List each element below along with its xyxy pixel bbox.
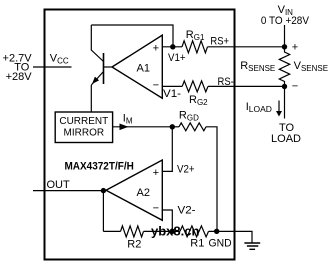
svg-text:RGD: RGD — [179, 110, 199, 123]
ground symbol — [244, 243, 260, 249]
resistor RG2 — [182, 81, 208, 92]
wire VIN lead — [284, 25, 286, 47]
svg-text:0 TO +28V: 0 TO +28V — [261, 15, 310, 27]
wire R2 to R1 — [144, 230, 181, 232]
svg-text:−: − — [153, 202, 159, 214]
svg-text:RG1: RG1 — [186, 29, 205, 42]
svg-text:RS+: RS+ — [210, 35, 229, 47]
wire RGD lead — [172, 126, 179, 128]
wire to load — [284, 87, 286, 119]
transistor Q1 emitter arrow — [92, 77, 99, 84]
svg-text:+: + — [153, 167, 159, 179]
svg-text:A1: A1 — [137, 62, 150, 74]
transistor Q1 base wire — [104, 66, 113, 68]
wire RS- — [208, 85, 285, 87]
svg-text:−: − — [292, 81, 298, 93]
wire A2 out down — [102, 191, 104, 232]
wire feedback top — [91, 25, 173, 47]
wire emitter to current mirror — [90, 85, 92, 112]
svg-text:OUT: OUT — [47, 179, 71, 191]
wire IM — [113, 126, 173, 128]
svg-text:VSENSE: VSENSE — [294, 60, 328, 73]
svg-text:V2+: V2+ — [177, 163, 195, 175]
resistor RG1 — [182, 41, 208, 53]
node V2- junction dot — [170, 229, 175, 234]
arrow ILOAD — [278, 101, 280, 112]
svg-text:VCC: VCC — [50, 52, 69, 65]
svg-text:IM: IM — [123, 113, 133, 126]
resistor RSENSE — [279, 47, 289, 87]
svg-text:V1+: V1+ — [168, 52, 186, 64]
transistor Q1 base bar — [103, 53, 105, 84]
wire V2+ branch — [162, 127, 172, 172]
wire bottom left — [103, 230, 120, 232]
wire collector vertical — [91, 25, 103, 62]
node OUT dot — [101, 188, 106, 193]
svg-text:−: − — [153, 80, 159, 92]
svg-text:V1-: V1- — [163, 88, 181, 100]
svg-text:CURRENT: CURRENT — [59, 116, 108, 127]
wire V1+ input — [162, 46, 182, 48]
svg-text:MAX4372T/F/H: MAX4372T/F/H — [65, 161, 134, 173]
wire RS+ — [208, 46, 285, 48]
wire V1- input — [162, 85, 182, 87]
svg-text:+: + — [153, 43, 159, 55]
arrow IM — [120, 124, 129, 131]
svg-text:R1: R1 — [190, 238, 204, 250]
svg-text:LOAD: LOAD — [271, 133, 301, 145]
wire OUT — [33, 190, 106, 192]
svg-text:ILOAD: ILOAD — [246, 101, 272, 114]
node GND junction dot — [214, 229, 219, 234]
wire R1 to GND out — [209, 231, 253, 242]
svg-text:V2-: V2- — [178, 205, 196, 217]
svg-text:MIRROR: MIRROR — [64, 128, 105, 139]
transistor Q1 emitter — [91, 72, 103, 86]
svg-text:A2: A2 — [137, 187, 150, 199]
wire V2- stub — [162, 210, 172, 231]
svg-text:+28V: +28V — [6, 71, 33, 83]
svg-text:GND: GND — [209, 238, 232, 250]
svg-text:+: + — [292, 42, 298, 54]
IC boundary box — [45, 10, 235, 260]
svg-text:RS-: RS- — [218, 76, 235, 88]
resistor R1 — [180, 226, 209, 237]
svg-text:RSENSE: RSENSE — [240, 60, 275, 73]
node RSENSE top dot — [282, 44, 287, 49]
node RSENSE bottom dot — [282, 84, 287, 89]
wire RGD to bottom node — [206, 127, 217, 232]
svg-text:ybx8.cn: ybx8.cn — [151, 223, 199, 238]
resistor RGD — [179, 123, 206, 131]
svg-text:R2: R2 — [127, 239, 141, 251]
wire VCC stub — [33, 66, 72, 68]
resistor R2 — [121, 226, 144, 237]
svg-text:RG2: RG2 — [189, 94, 208, 107]
current mirror box — [55, 112, 112, 143]
op-amp A2 — [106, 160, 162, 220]
op-amp A1 — [112, 35, 162, 98]
node V1+ dot — [170, 44, 175, 49]
node IM dot — [170, 124, 175, 129]
